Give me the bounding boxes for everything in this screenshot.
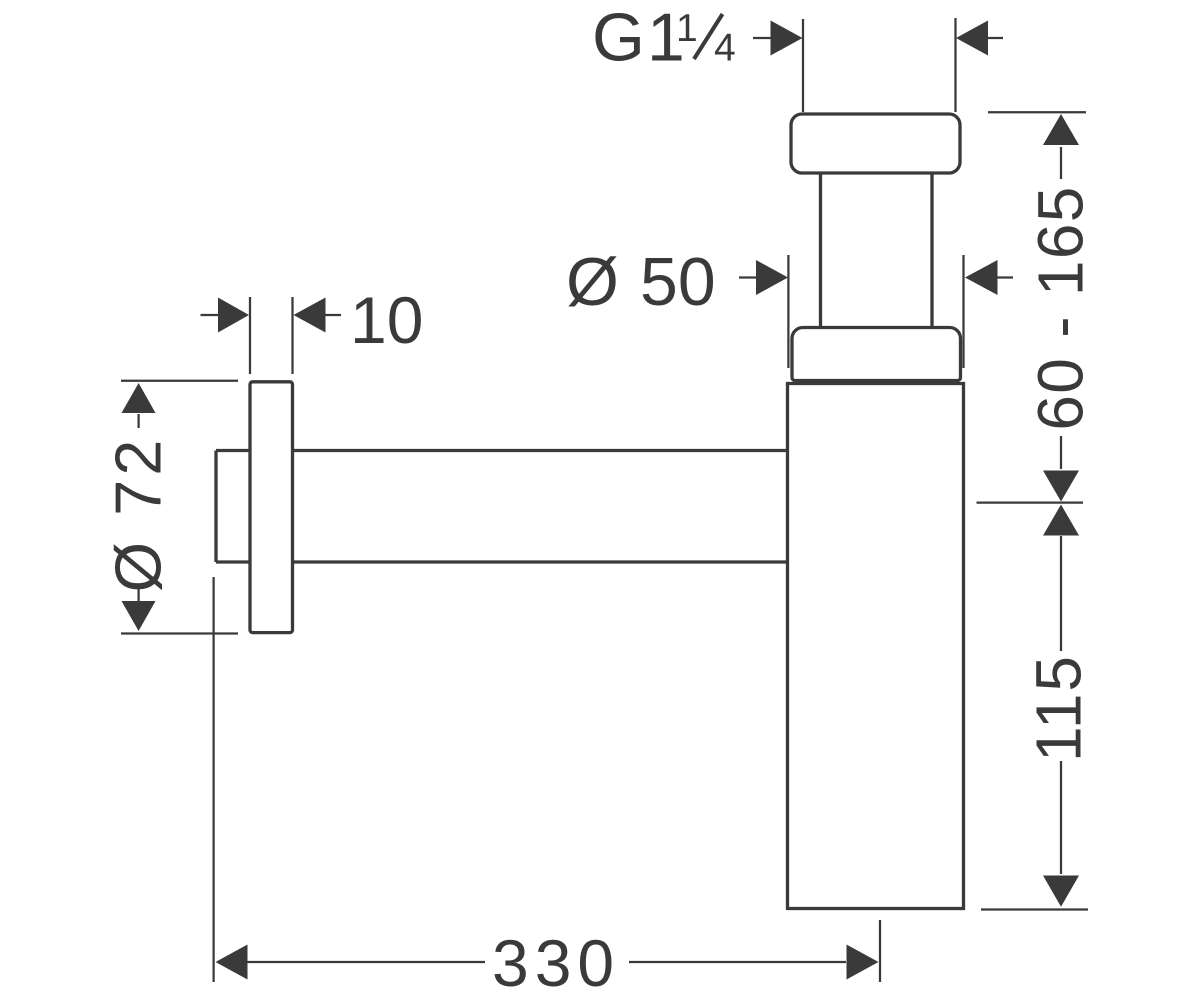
arrowhead left-pointing 330 <box>216 945 248 980</box>
horizontal outlet pipe <box>216 451 789 563</box>
arrow tails G11/4 <box>753 37 1003 39</box>
svg-text:60 - 165: 60 - 165 <box>1025 185 1097 430</box>
dimension G 1 1/4 <box>753 18 1003 112</box>
extension line right D50 <box>962 255 964 368</box>
extension line left D50 <box>787 255 789 368</box>
dimension D50 <box>739 255 1013 368</box>
extension line bottom D72 <box>121 632 238 634</box>
arrowhead right-pointing 330 <box>847 945 879 980</box>
dimension 10 (flange thickness) <box>201 297 342 374</box>
dimension 330 (overall length) <box>214 577 880 982</box>
svg-text:Ø 72: Ø 72 <box>102 436 175 593</box>
svg-text:115: 115 <box>1023 654 1095 762</box>
top nut <box>791 114 960 173</box>
svg-text:330: 330 <box>492 926 620 1000</box>
arrowhead up-pointing D72 <box>122 383 156 413</box>
extension line top 60-165 <box>988 111 1086 113</box>
dimension line segments 330 <box>247 961 846 963</box>
vertical inlet pipe <box>821 171 933 330</box>
extension line middle <box>977 501 1084 503</box>
svg-text:G: G <box>592 0 645 76</box>
svg-text:50: 50 <box>640 244 716 320</box>
arrowhead right-pointing 10 <box>218 298 249 333</box>
extension line bottom 115 <box>981 908 1088 910</box>
svg-text:10: 10 <box>350 283 423 357</box>
arrowhead up-pointing 115 <box>1043 505 1079 536</box>
arrowhead down-pointing D72 <box>122 601 156 631</box>
arrowhead right-pointing D50 <box>756 260 788 295</box>
arrowhead left-pointing G11/4 <box>956 21 988 56</box>
arrowhead down-pointing 115 <box>1043 876 1079 907</box>
extension line right 330 <box>879 920 881 982</box>
dimension line shafts 60-165 <box>1060 147 1062 469</box>
dimension line shafts D72 <box>137 414 139 601</box>
dimension D72 (flange diameter) <box>121 381 238 634</box>
extension line right of G11/4 <box>954 18 956 112</box>
dimension 60-165 (inlet height range) <box>977 112 1087 502</box>
arrowhead right-pointing G11/4 <box>771 21 803 56</box>
arrowhead up-pointing 60-165 <box>1043 114 1079 145</box>
arrow tails D50 <box>739 276 1013 278</box>
extension line left 10 <box>249 297 251 374</box>
wall flange <box>250 382 293 633</box>
arrowhead down-pointing 60-165 <box>1043 471 1079 502</box>
dimension line shafts 115 <box>1060 536 1062 874</box>
dimension 115 (body height) <box>981 536 1088 910</box>
svg-text:1: 1 <box>676 7 698 50</box>
arrowhead left-pointing D50 <box>965 260 998 295</box>
extension line left of G11/4 <box>802 19 804 112</box>
arrow tails 10 <box>201 314 342 316</box>
extension line right 10 <box>291 297 293 374</box>
svg-text:4: 4 <box>714 27 736 70</box>
lower nut <box>792 328 961 381</box>
extension line left 330 <box>212 577 214 982</box>
arrowhead left-pointing 10 <box>294 298 326 333</box>
extension line top D72 <box>121 380 238 382</box>
svg-text:Ø: Ø <box>566 244 619 320</box>
trap body cup <box>788 384 964 909</box>
